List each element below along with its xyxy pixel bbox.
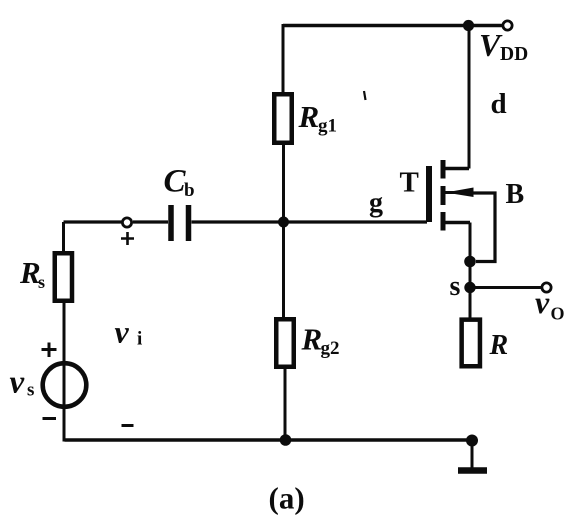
svg-text:O: O (551, 304, 565, 324)
svg-text:T: T (400, 167, 419, 199)
svg-text:g: g (369, 188, 383, 219)
svg-text:(a): (a) (269, 481, 305, 516)
svg-text:B: B (506, 179, 525, 210)
svg-text:s: s (450, 271, 461, 302)
svg-text:g1: g1 (318, 116, 337, 137)
svg-text:R: R (298, 99, 320, 134)
svg-text:s: s (27, 380, 34, 401)
svg-text:v: v (115, 314, 130, 350)
svg-text:v: v (10, 365, 25, 401)
svg-text:R: R (301, 322, 323, 357)
svg-text:R: R (489, 330, 509, 361)
svg-text:i: i (137, 329, 142, 350)
svg-text:v: v (535, 284, 550, 320)
svg-text:b: b (184, 180, 195, 201)
svg-text:DD: DD (500, 44, 528, 65)
svg-text:s: s (38, 272, 45, 292)
svg-text:g2: g2 (321, 338, 340, 359)
svg-text:d: d (491, 88, 507, 120)
